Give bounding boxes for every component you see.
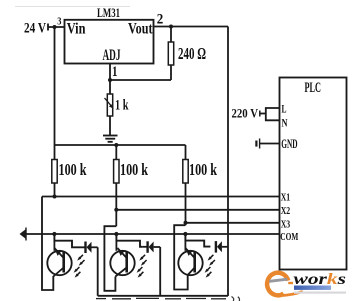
light arrows Q2	[137, 267, 144, 278]
scan artifacts bottom	[96, 297, 226, 299]
wire 220V fork to L and N	[260, 113, 266, 115]
svg-text:works: works	[294, 271, 347, 288]
LED D2	[142, 241, 160, 253]
svg-text:N: N	[282, 118, 288, 130]
LED D3	[216, 241, 228, 253]
wire rail to resistor tops	[55, 144, 186, 146]
svg-text:100 k: 100 k	[189, 160, 217, 179]
svg-text:COM: COM	[280, 231, 298, 243]
node D junction	[114, 143, 118, 147]
wire COM bus	[25, 233, 280, 235]
wire 24V to Vin pin3	[48, 26, 65, 28]
resistor R4 100 k	[185, 145, 187, 160]
terminal tick 24V	[47, 24, 49, 31]
wire Q3 emitter to COM and LED branch	[185, 234, 210, 247]
wire left rail down	[54, 27, 56, 145]
wire Q1 emitter to COM and LED branch	[54, 234, 85, 247]
svg-text:X1: X1	[281, 191, 291, 203]
node C junction ADJ	[108, 78, 112, 82]
svg-text:PLC: PLC	[305, 80, 322, 96]
light arrows Q3	[205, 267, 212, 278]
svg-text:L: L	[282, 104, 287, 116]
scan artifact bracket	[232, 297, 240, 301]
svg-text:Vin: Vin	[67, 20, 86, 37]
node X2 junction with R3	[114, 208, 118, 212]
wire X2 bus	[116, 209, 279, 211]
wire cell1 left rail	[42, 197, 53, 291]
wire Vout pin2 to right	[154, 26, 229, 28]
resistor R3 100 k	[115, 145, 117, 160]
node COM junction Q3 emitter	[183, 232, 187, 236]
wire X1 bus	[42, 196, 280, 198]
transistor Q1 phototransistor	[47, 248, 71, 277]
svg-text:2: 2	[157, 12, 164, 28]
svg-text:1: 1	[112, 64, 118, 80]
wire Vout rail down right side	[227, 27, 229, 297]
light arrows Q1	[74, 267, 81, 278]
wire bottom Vout rail	[98, 295, 228, 297]
PLC box	[280, 78, 347, 270]
wire ADJ pin down	[109, 64, 111, 95]
node X1 junction with R2	[53, 195, 57, 199]
scan artifact line top	[15, 6, 130, 7]
node COM junction Q2 emitter	[114, 232, 118, 236]
svg-text:24 V: 24 V	[24, 21, 46, 37]
potentiometer RP1 1 k	[107, 94, 112, 116]
svg-text:LM31: LM31	[97, 6, 120, 20]
svg-text:Vout: Vout	[128, 20, 153, 37]
svg-text:240 Ω: 240 Ω	[178, 44, 206, 63]
node COM junction Q1 emitter	[52, 232, 56, 236]
voltage regulator U1 LM31 box	[65, 20, 154, 64]
light arrows D1	[77, 255, 84, 266]
ground	[103, 136, 118, 142]
node A junction 24V rail	[53, 25, 57, 29]
wire GND	[260, 143, 280, 145]
e-works watermark logo	[267, 271, 346, 296]
svg-text:220 V: 220 V	[232, 106, 259, 121]
svg-text:100 k: 100 k	[59, 160, 87, 179]
transistor Q2 phototransistor	[110, 248, 134, 277]
wire ADJ to 240 ohm bottom	[110, 79, 171, 81]
wire X3 bus	[186, 222, 280, 224]
transistor Q3 phototransistor	[178, 248, 202, 275]
wire cell2 jog and rail	[104, 226, 116, 291]
svg-text:3: 3	[57, 17, 61, 28]
terminal arrow COM left	[20, 229, 27, 240]
node B junction Vout	[169, 25, 173, 29]
svg-text:X2: X2	[281, 205, 291, 217]
svg-text:1 k: 1 k	[115, 98, 129, 114]
light arrows D3	[208, 255, 215, 266]
light arrows D2	[139, 255, 146, 266]
resistor R2 100 k	[54, 145, 56, 160]
wire cell3 jog and rail	[174, 225, 188, 289]
resistor R1 240 ohm	[170, 27, 172, 43]
terminal tick 220V	[259, 111, 261, 117]
wire Q2 emitter to COM and LED branch	[116, 234, 142, 247]
wire D2 anode drop	[159, 247, 161, 296]
svg-text:ADJ: ADJ	[103, 47, 121, 64]
LED D1	[86, 242, 98, 254]
svg-text:100 k: 100 k	[120, 160, 148, 179]
ground chassis at PLC	[256, 139, 259, 149]
node X3 junction with R4	[184, 221, 188, 225]
svg-text:X3: X3	[281, 218, 291, 230]
svg-text:GND: GND	[281, 137, 297, 151]
wire D1 anode drop	[97, 247, 99, 295]
wire pot to ground	[109, 116, 111, 136]
